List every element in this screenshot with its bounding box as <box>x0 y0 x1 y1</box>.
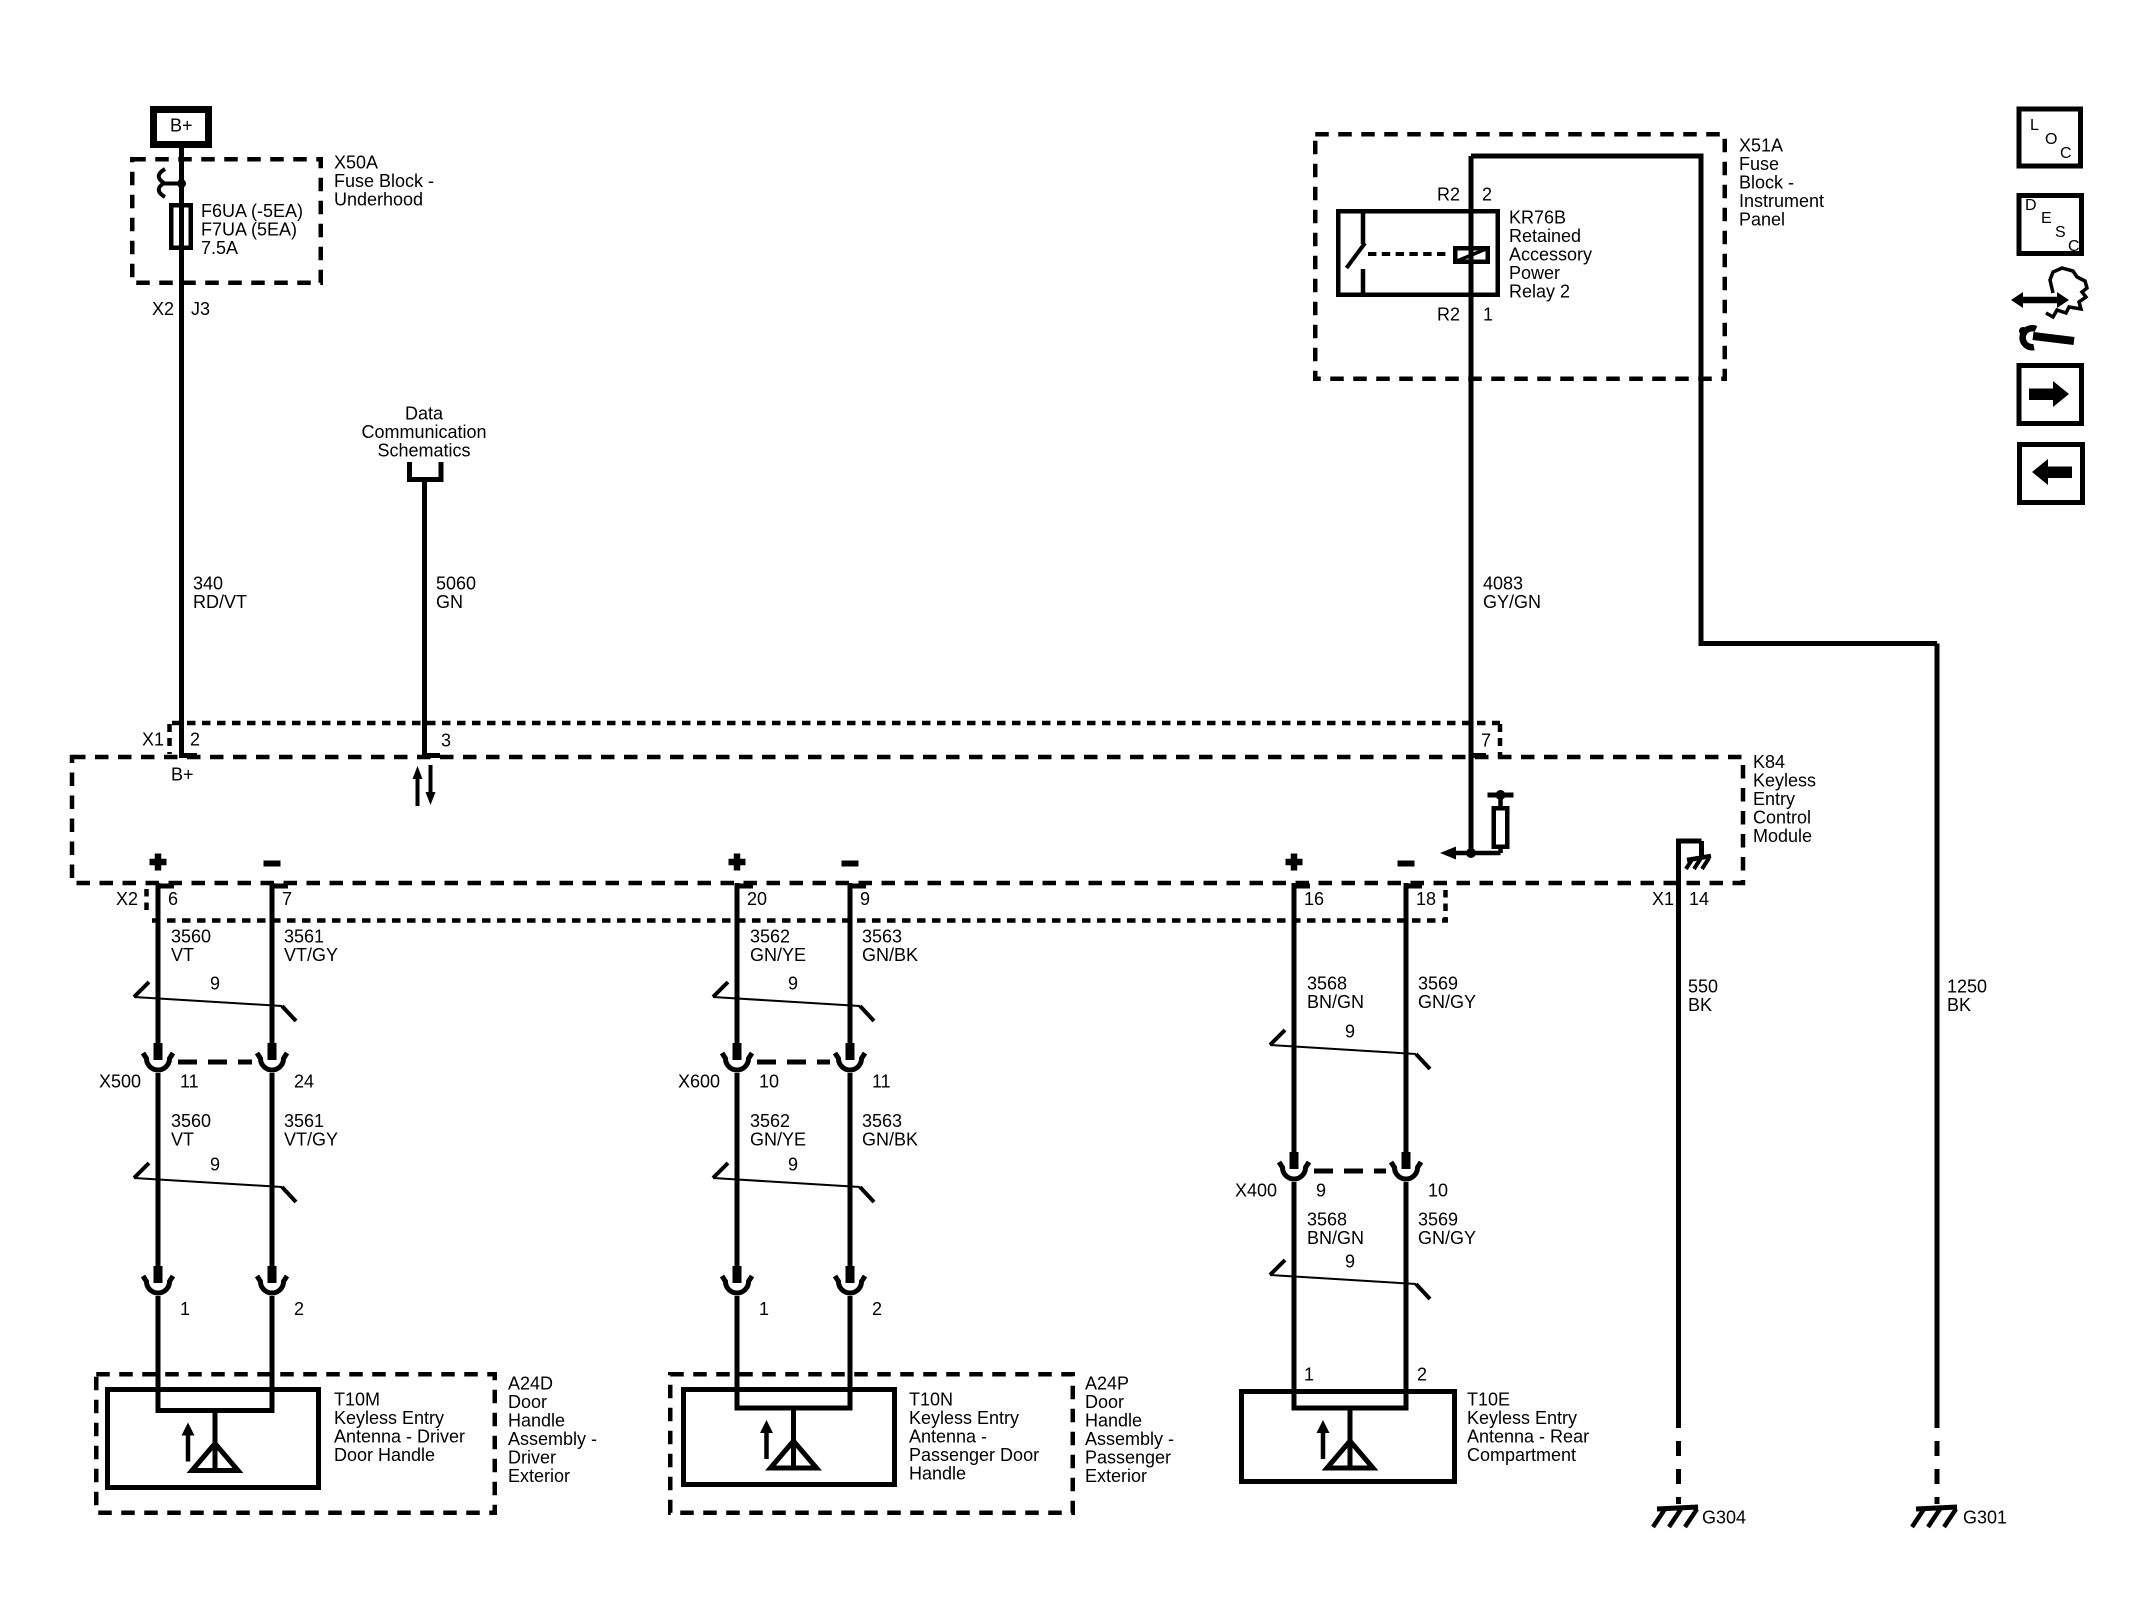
wire 3562 segment 1 <box>735 883 740 1045</box>
fuse block X51A dashed box <box>1315 134 1725 379</box>
svg-text:9: 9 <box>1345 1021 1355 1041</box>
svg-text:Exterior: Exterior <box>1085 1466 1147 1486</box>
label T10N <box>909 1389 1039 1483</box>
svg-text:Handle: Handle <box>909 1463 966 1483</box>
module pin 18 (-) <box>1398 864 1437 909</box>
svg-text:Schematics: Schematics <box>377 440 470 460</box>
label T10M <box>334 1389 465 1465</box>
svg-text:VT: VT <box>171 1129 194 1149</box>
svg-text:1: 1 <box>759 1299 769 1319</box>
svg-text:Handle: Handle <box>1085 1410 1142 1430</box>
svg-text:Exterior: Exterior <box>508 1466 570 1486</box>
svg-text:Door Handle: Door Handle <box>334 1445 435 1465</box>
wire label 3562 GN/YE lower <box>750 1111 806 1150</box>
inline connector X600 link <box>678 1062 891 1091</box>
relay KR76B outline <box>1338 211 1498 295</box>
wire 4083 relay to module pin X2-7 <box>1469 156 1474 852</box>
svg-text:Underhood: Underhood <box>334 189 423 209</box>
power symbol B+ terminal <box>154 110 209 145</box>
svg-text:6: 6 <box>168 889 178 909</box>
connector labels X2 / J3 <box>152 299 210 319</box>
fuse value label <box>201 201 303 258</box>
svg-text:Module: Module <box>1753 826 1812 846</box>
wire label 3560 VT lower <box>171 1111 211 1150</box>
inline connector X600 terminal A <box>722 1043 752 1070</box>
svg-text:Antenna -: Antenna - <box>909 1426 987 1446</box>
svg-text:550: 550 <box>1688 976 1718 996</box>
twisted pair marker lower <box>713 1154 874 1202</box>
twisted pair marker lower <box>134 1154 296 1202</box>
svg-text:7.5A: 7.5A <box>201 238 238 258</box>
svg-text:X1: X1 <box>142 729 164 749</box>
wire label 340 RD/VT <box>193 573 247 612</box>
wire label 5060 GN <box>436 573 476 612</box>
relay switch contact <box>1347 209 1366 297</box>
icon back arrow button <box>2020 445 2083 503</box>
svg-text:GN/YE: GN/YE <box>750 1129 806 1149</box>
svg-text:F7UA (5EA): F7UA (5EA) <box>201 219 297 239</box>
svg-text:L: L <box>2030 117 2039 134</box>
svg-text:Keyless Entry: Keyless Entry <box>1467 1408 1577 1428</box>
svg-text:S: S <box>2055 224 2066 241</box>
svg-text:3568: 3568 <box>1307 973 1347 993</box>
inline connector X400 link <box>1235 1171 1448 1200</box>
svg-text:3560: 3560 <box>171 1111 211 1131</box>
svg-text:Assembly -: Assembly - <box>508 1429 597 1449</box>
svg-text:GN/BK: GN/BK <box>862 945 918 965</box>
svg-text:9: 9 <box>788 1154 798 1174</box>
svg-text:9: 9 <box>210 1154 220 1174</box>
relay pin label R2 1 <box>1437 304 1493 324</box>
svg-text:RD/VT: RD/VT <box>193 592 247 612</box>
svg-text:Data: Data <box>405 403 444 423</box>
wire 1250 to ground G301 <box>1701 644 1937 1505</box>
component connector terminal 2 <box>835 1266 865 1293</box>
svg-text:A24D: A24D <box>508 1373 553 1393</box>
icon DESC button <box>2019 196 2082 256</box>
svg-text:T10M: T10M <box>334 1389 380 1409</box>
svg-text:Driver: Driver <box>508 1447 556 1467</box>
svg-text:2: 2 <box>190 729 200 749</box>
off-page connector Data Communication Schematics <box>361 403 486 479</box>
svg-text:K84: K84 <box>1753 752 1785 772</box>
svg-text:O: O <box>2045 131 2057 148</box>
component pin labels <box>1304 1364 1427 1384</box>
antenna T10M box <box>108 1390 319 1488</box>
wire 3560 segment 3 <box>156 1296 161 1410</box>
fuse block X50A dashed box <box>132 159 321 283</box>
icon diagnostic wrench <box>2011 268 2087 347</box>
module pin 16 (+) <box>1286 854 1325 909</box>
svg-text:3563: 3563 <box>862 1111 902 1131</box>
wire 3561 segment 2 <box>270 1073 275 1268</box>
ground G304 <box>1653 1507 1746 1527</box>
svg-text:X2: X2 <box>116 889 138 909</box>
svg-text:T10E: T10E <box>1467 1389 1510 1409</box>
module pin 7 (-) <box>264 864 293 909</box>
svg-text:3561: 3561 <box>284 1111 324 1131</box>
relay actuation dashed link <box>1368 252 1449 256</box>
svg-text:3560: 3560 <box>171 926 211 946</box>
svg-text:Passenger Door: Passenger Door <box>909 1445 1039 1465</box>
twisted pair marker <box>1270 1021 1430 1069</box>
wire label 3561 VT/GY <box>284 926 338 965</box>
wire 3563 segment 1 <box>848 883 853 1045</box>
icon LOC button <box>2019 109 2081 166</box>
label A24D <box>508 1373 597 1486</box>
antenna T10N symbol <box>760 1408 817 1468</box>
svg-text:GY/GN: GY/GN <box>1483 592 1541 612</box>
twisted pair marker <box>713 973 874 1021</box>
svg-text:9: 9 <box>860 889 870 909</box>
module K84 dashed box <box>72 757 1743 883</box>
wire 3569 segment 2 <box>1404 1182 1409 1410</box>
svg-text:X400: X400 <box>1235 1180 1277 1200</box>
svg-text:T10N: T10N <box>909 1389 953 1409</box>
wire label 3563 GN/BK <box>862 926 918 965</box>
wire label 3568 BN/GN lower <box>1307 1209 1364 1248</box>
svg-text:Handle: Handle <box>508 1410 565 1430</box>
antenna T10E internal bus <box>1292 1406 1409 1411</box>
label A24P <box>1085 1373 1174 1486</box>
svg-text:GN: GN <box>436 592 463 612</box>
wire 550 module to ground G304 <box>1676 883 1681 1504</box>
svg-text:B+: B+ <box>171 764 194 784</box>
module pin 2 <box>171 729 200 784</box>
svg-text:A24P: A24P <box>1085 1373 1129 1393</box>
svg-text:14: 14 <box>1689 889 1709 909</box>
svg-text:VT/GY: VT/GY <box>284 1129 338 1149</box>
svg-text:Accessory: Accessory <box>1509 244 1592 264</box>
svg-text:Communication: Communication <box>361 422 486 442</box>
svg-text:1250: 1250 <box>1947 976 1987 996</box>
svg-text:3569: 3569 <box>1418 1209 1458 1229</box>
svg-text:16: 16 <box>1304 889 1324 909</box>
module pin 7 top <box>1469 730 1492 755</box>
bidirectional data arrows <box>413 765 436 806</box>
svg-text:3562: 3562 <box>750 926 790 946</box>
svg-text:9: 9 <box>210 973 220 993</box>
svg-text:Fuse: Fuse <box>1739 154 1779 174</box>
svg-text:7: 7 <box>1481 730 1491 750</box>
svg-text:3562: 3562 <box>750 1111 790 1131</box>
svg-text:Antenna - Rear: Antenna - Rear <box>1467 1426 1589 1446</box>
svg-text:Power: Power <box>1509 263 1560 283</box>
svg-text:2: 2 <box>1417 1364 1427 1384</box>
svg-text:3569: 3569 <box>1418 973 1458 993</box>
module internal ground lead <box>1676 841 1702 883</box>
svg-text:20: 20 <box>747 889 767 909</box>
wire 340 from B+ through fuse to module pin X1-2 <box>179 148 184 757</box>
ground G301 <box>1912 1507 2007 1527</box>
label X50A Fuse Block - Underhood <box>334 152 434 209</box>
svg-text:7: 7 <box>282 889 292 909</box>
relay pin label R2 2 <box>1437 184 1492 204</box>
wire label 3561 VT/GY lower <box>284 1111 338 1150</box>
antenna T10E box <box>1242 1392 1455 1482</box>
component pin labels <box>180 1299 304 1319</box>
component connector terminal 1 <box>143 1266 173 1293</box>
svg-text:X600: X600 <box>678 1071 720 1091</box>
svg-text:2: 2 <box>1482 184 1492 204</box>
svg-text:1: 1 <box>1483 304 1493 324</box>
inline connector X400 terminal A <box>1279 1152 1309 1179</box>
svg-text:BN/GN: BN/GN <box>1307 1228 1364 1248</box>
svg-text:Fuse Block -: Fuse Block - <box>334 171 434 191</box>
inline connector X600 terminal B <box>835 1043 865 1070</box>
svg-text:X1: X1 <box>1652 889 1674 909</box>
svg-text:1: 1 <box>180 1299 190 1319</box>
wire 3563 segment 2 <box>848 1073 853 1268</box>
wire 3568 segment 1 <box>1292 883 1297 1154</box>
wire 3563 segment 3 <box>848 1296 853 1410</box>
antenna assembly A24P dashed box <box>670 1374 1073 1513</box>
label KR76B Retained Accessory Power Relay 2 <box>1509 207 1592 301</box>
module pin 3 <box>422 730 451 755</box>
wire 3561 segment 3 <box>270 1296 275 1410</box>
label K84 Keyless Entry Control Module <box>1753 752 1816 846</box>
wire 3561 segment 1 <box>270 883 275 1045</box>
module internal resistor <box>1488 790 1514 853</box>
module pin 9 (-) <box>842 864 871 909</box>
inline connector X500 terminal B <box>257 1043 287 1070</box>
svg-text:Passenger: Passenger <box>1085 1447 1171 1467</box>
svg-text:C: C <box>2060 145 2072 162</box>
svg-text:B+: B+ <box>170 115 193 135</box>
svg-text:R2: R2 <box>1437 184 1460 204</box>
wire label 3568 BN/GN <box>1307 973 1364 1012</box>
module pin 6 (+) <box>150 854 179 909</box>
svg-text:X50A: X50A <box>334 152 378 172</box>
component connector terminal 2 <box>257 1266 287 1293</box>
svg-text:GN/BK: GN/BK <box>862 1129 918 1149</box>
svg-text:3563: 3563 <box>862 926 902 946</box>
connector X1 dotted line <box>142 723 1500 758</box>
svg-text:10: 10 <box>1428 1180 1448 1200</box>
wire label 4083 GY/GN <box>1483 573 1541 612</box>
svg-text:1: 1 <box>1304 1364 1314 1384</box>
icon next arrow button <box>2019 366 2082 424</box>
connector X2 dotted line <box>116 889 1448 921</box>
inline connector X400 terminal B <box>1391 1152 1421 1179</box>
wire label 3569 GN/GY lower <box>1418 1209 1476 1248</box>
svg-text:GN/YE: GN/YE <box>750 945 806 965</box>
wire label 3560 VT <box>171 926 211 965</box>
svg-text:D: D <box>2025 197 2037 214</box>
svg-text:9: 9 <box>1316 1180 1326 1200</box>
antenna T10N box <box>684 1390 895 1485</box>
svg-text:Block -: Block - <box>1739 172 1794 192</box>
svg-text:Keyless Entry: Keyless Entry <box>909 1408 1019 1428</box>
wire label 3562 GN/YE <box>750 926 806 965</box>
twisted pair marker lower <box>1270 1251 1430 1299</box>
module internal signal arrow <box>1440 847 1501 860</box>
inline connector X500 terminal A <box>143 1043 173 1070</box>
svg-text:Door: Door <box>508 1392 547 1412</box>
wire 5060 to module pin X1-3 <box>422 479 427 757</box>
fusible element tap symbol <box>159 169 186 197</box>
antenna T10N internal bus <box>735 1406 853 1411</box>
svg-text:2: 2 <box>872 1299 882 1319</box>
svg-text:X500: X500 <box>99 1071 141 1091</box>
wire 3569 segment 1 <box>1404 883 1409 1154</box>
antenna assembly A24D dashed box <box>96 1374 495 1513</box>
label X51A Fuse Block - Instrument Panel <box>1739 135 1824 229</box>
svg-text:9: 9 <box>788 973 798 993</box>
svg-text:F6UA (-5EA): F6UA (-5EA) <box>201 201 303 221</box>
svg-text:C: C <box>2068 238 2080 255</box>
wire 3568 segment 2 <box>1292 1182 1297 1410</box>
svg-text:BN/GN: BN/GN <box>1307 992 1364 1012</box>
svg-text:VT/GY: VT/GY <box>284 945 338 965</box>
wire relay feed top segment <box>1471 154 1701 647</box>
svg-text:Antenna - Driver: Antenna - Driver <box>334 1426 465 1446</box>
label T10E <box>1467 1389 1589 1465</box>
antenna T10E symbol <box>1317 1408 1374 1468</box>
wire label 550 BK <box>1688 976 1718 1015</box>
svg-text:18: 18 <box>1416 889 1436 909</box>
svg-text:R2: R2 <box>1437 304 1460 324</box>
svg-text:340: 340 <box>193 573 223 593</box>
wire label 3569 GN/GY <box>1418 973 1476 1012</box>
svg-text:GN/GY: GN/GY <box>1418 1228 1476 1248</box>
antenna T10M symbol <box>182 1411 239 1471</box>
svg-text:Relay 2: Relay 2 <box>1509 281 1570 301</box>
svg-text:Compartment: Compartment <box>1467 1445 1576 1465</box>
wire 3562 segment 3 <box>735 1296 740 1410</box>
module pin X1-14 label <box>1652 889 1709 909</box>
svg-text:24: 24 <box>294 1071 314 1091</box>
svg-text:2: 2 <box>294 1299 304 1319</box>
wire label 3563 GN/BK lower <box>862 1111 918 1150</box>
svg-text:Keyless Entry: Keyless Entry <box>334 1408 444 1428</box>
svg-text:10: 10 <box>759 1071 779 1091</box>
relay coil <box>1455 248 1488 262</box>
svg-text:Door: Door <box>1085 1392 1124 1412</box>
svg-text:3: 3 <box>441 730 451 750</box>
module pin 20 (+) <box>729 854 768 909</box>
svg-text:Panel: Panel <box>1739 209 1785 229</box>
svg-text:BK: BK <box>1688 995 1712 1015</box>
svg-text:3568: 3568 <box>1307 1209 1347 1229</box>
svg-text:Retained: Retained <box>1509 226 1581 246</box>
svg-text:X2: X2 <box>152 299 174 319</box>
svg-text:Entry: Entry <box>1753 789 1795 809</box>
fuse F6UA/F7UA <box>171 205 191 248</box>
svg-text:Control: Control <box>1753 807 1811 827</box>
component pin labels <box>759 1299 882 1319</box>
twisted pair marker <box>134 973 296 1021</box>
module internal chassis ground symbol <box>1686 856 1711 869</box>
svg-text:X51A: X51A <box>1739 135 1783 155</box>
wire 3560 segment 2 <box>156 1073 161 1268</box>
svg-text:J3: J3 <box>191 299 210 319</box>
antenna T10M internal bus <box>156 1408 275 1413</box>
svg-text:9: 9 <box>1345 1251 1355 1271</box>
wire 3562 segment 2 <box>735 1073 740 1268</box>
svg-text:Keyless: Keyless <box>1753 770 1816 790</box>
svg-text:Assembly -: Assembly - <box>1085 1429 1174 1449</box>
wire 3560 segment 1 <box>156 883 161 1045</box>
svg-text:4083: 4083 <box>1483 573 1523 593</box>
inline connector X500 link <box>99 1062 314 1091</box>
svg-text:G304: G304 <box>1702 1507 1746 1527</box>
svg-text:Instrument: Instrument <box>1739 191 1824 211</box>
svg-text:G301: G301 <box>1963 1507 2007 1527</box>
svg-text:VT: VT <box>171 945 194 965</box>
svg-text:KR76B: KR76B <box>1509 207 1566 227</box>
svg-text:3561: 3561 <box>284 926 324 946</box>
svg-text:11: 11 <box>180 1071 199 1091</box>
component connector terminal 1 <box>722 1266 752 1293</box>
svg-text:GN/GY: GN/GY <box>1418 992 1476 1012</box>
svg-text:11: 11 <box>872 1071 891 1091</box>
svg-text:5060: 5060 <box>436 573 476 593</box>
wire label 1250 BK <box>1947 976 1987 1015</box>
svg-text:BK: BK <box>1947 995 1971 1015</box>
svg-text:E: E <box>2041 210 2052 227</box>
